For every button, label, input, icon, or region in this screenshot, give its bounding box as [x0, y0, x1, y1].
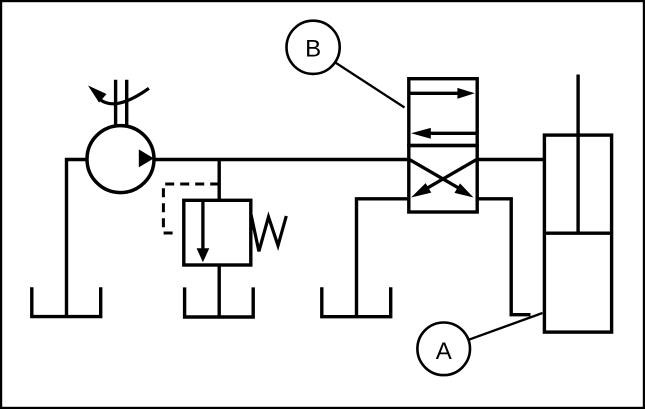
- label A leader line: [444, 313, 543, 349]
- tank T2 (relief valve drain reservoir): [185, 287, 254, 317]
- relief valve V1 pilot line (dashed): [163, 184, 219, 233]
- wire: pump suction line down to tank T1: [67, 160, 89, 317]
- cylinder CYL1 barrel: [544, 135, 611, 332]
- wire: valve to cylinder cap-end port: [477, 199, 530, 315]
- wire: branch down to relief valve V1: [217, 160, 220, 201]
- relief valve V1 body: [184, 200, 251, 265]
- wire: valve drain to tank T3: [357, 199, 409, 317]
- directional valve DV1 top position box: [409, 79, 477, 146]
- directional valve DV1 bottom position box: [409, 146, 477, 213]
- cylinder CYL1 piston: [544, 231, 611, 234]
- svg-text:B: B: [305, 36, 321, 63]
- pump P1 rotation arrow: [88, 86, 149, 104]
- pump P1 flow direction triangle: [139, 149, 154, 167]
- label A circle: [417, 323, 470, 376]
- tank T3 (valve drain reservoir): [322, 287, 391, 316]
- svg-text:A: A: [436, 338, 452, 365]
- cylinder CYL1 rod: [576, 75, 579, 234]
- directional valve DV1 top-box right flow arrow: [409, 88, 475, 99]
- directional valve DV1 crossed arrow 2 (down-left): [411, 160, 476, 198]
- label B circle: [287, 21, 340, 74]
- tank T1 (pump suction reservoir): [32, 287, 101, 316]
- wire: main pressure line pump to directional valve: [154, 158, 409, 161]
- relief valve V1 internal flow arrow: [197, 200, 210, 262]
- wire: valve to cylinder rod-end port: [477, 158, 544, 161]
- pump P1 (circle): [87, 126, 154, 193]
- directional valve DV1 top-box left flow arrow: [411, 128, 477, 139]
- relief valve V1 spring: [251, 214, 286, 252]
- pump P1 drive shaft: [116, 80, 127, 126]
- directional valve DV1 crossed arrow 1 (down-right): [410, 160, 474, 198]
- label B leader line: [313, 48, 405, 108]
- wire: relief valve outlet to tank T2: [217, 265, 220, 317]
